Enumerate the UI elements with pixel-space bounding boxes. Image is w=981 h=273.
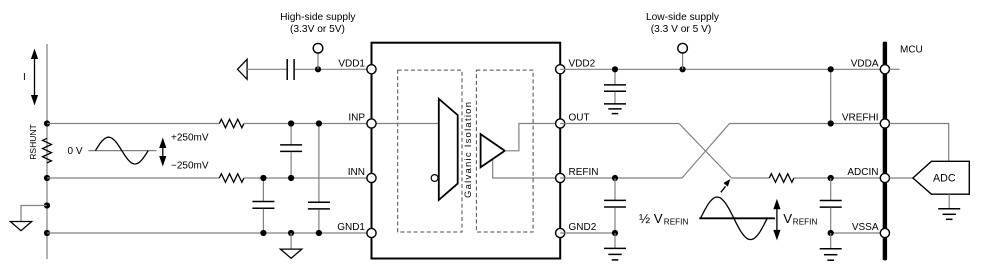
pin OUT — [556, 119, 565, 128]
wire: INN row left — [47, 177, 219, 179]
low-side supply terminal circle — [678, 43, 688, 53]
wire: OUT row — [560, 123, 679, 125]
wire: GND2 ground stem — [614, 233, 616, 248]
capacitor REFIN — [604, 178, 626, 233]
wire: cap to VDD1 pin — [295, 68, 372, 70]
node: VDDA link top — [828, 66, 834, 72]
resistor ADCIN series — [769, 174, 794, 183]
pin VREFHI — [880, 119, 889, 128]
svg-text:High-side supply: High-side supply — [280, 12, 356, 23]
svg-text:Galvanic Isolation: Galvanic Isolation — [463, 102, 474, 198]
MCU bus bar — [883, 42, 887, 261]
node: rail-INN junction — [44, 175, 50, 181]
svg-text:V: V — [783, 211, 792, 226]
double arrow VREFIN span — [773, 199, 780, 241]
wire: supply stem — [682, 53, 684, 69]
IC body — [372, 43, 561, 259]
wire: VREFHI row — [730, 123, 881, 125]
svg-text:RSHUNT: RSHUNT — [28, 124, 38, 159]
annotation arrow to crossover corner — [721, 179, 731, 192]
wire: VSSA row — [831, 232, 881, 234]
ADC block — [913, 161, 969, 194]
svg-text:(3.3V or 5V): (3.3V or 5V) — [290, 24, 345, 35]
svg-text:ADCIN: ADCIN — [847, 167, 878, 178]
ground (high-side triangle) below GND1 — [280, 249, 301, 258]
wire: INP row left — [47, 123, 219, 125]
wire: INP into modulator — [372, 123, 439, 125]
resistor INN series — [219, 174, 244, 183]
wire: buffer output to OUT pin — [505, 124, 560, 151]
high-side supply connector triangle — [238, 59, 248, 79]
high-side supply terminal circle — [313, 43, 323, 53]
node: low-side supply junction — [680, 66, 686, 72]
node: rail ground tap junction — [44, 202, 50, 208]
wire: INN row right — [244, 177, 434, 179]
wire: VDD2 row to VDDA — [560, 68, 880, 70]
wire: REFIN to buffer — [493, 159, 561, 178]
dashed box: low-side isolation barrier — [476, 70, 533, 232]
current direction arrow I (double-headed) — [31, 49, 38, 106]
pin VSSA — [880, 228, 889, 237]
double arrow +/-250mV — [159, 138, 166, 167]
svg-text:VSSA: VSSA — [852, 222, 879, 233]
resistor INP series — [219, 119, 244, 128]
node: high-side supply junction — [315, 66, 321, 72]
svg-text:½ V: ½ V — [639, 211, 663, 226]
wire: ADCIN row right — [794, 177, 881, 179]
wire: crossover diagonal REFIN->VREFHI — [682, 124, 730, 179]
node: ADCIN cap junction — [828, 175, 834, 181]
svg-text:REFIN: REFIN — [664, 218, 689, 227]
ground (bars) below GND2 — [604, 248, 626, 260]
svg-text:0 V: 0 V — [67, 146, 82, 157]
wire: VREFHI to ADC — [890, 124, 949, 162]
node: VREFHI link bottom — [828, 120, 834, 126]
svg-text:GND2: GND2 — [569, 222, 597, 233]
node: VSSA junction — [828, 230, 834, 236]
svg-text:MCU: MCU — [900, 45, 923, 56]
capacitor INP-GND1 (crosses INN) — [308, 124, 330, 234]
pin GND2 — [556, 228, 565, 237]
svg-text:ADC: ADC — [933, 172, 956, 184]
sine annotation 0V (waveform) — [95, 137, 148, 164]
pin INN — [367, 173, 376, 182]
capacitor ADCIN — [820, 178, 842, 233]
sine annotation 0V (zero line) — [88, 150, 156, 152]
wire: ADCIN to ADC — [890, 177, 913, 179]
wire: ADCIN row left — [732, 177, 770, 179]
dashed box: high-side isolation barrier — [398, 70, 462, 232]
pin GND1 — [367, 228, 376, 237]
modulator trapezoid U1 — [439, 99, 458, 200]
capacitor INN-GND1 — [252, 178, 274, 233]
wire: REFIN row — [560, 177, 682, 179]
svg-text:OUT: OUT — [569, 113, 590, 124]
pin ADCIN — [880, 173, 889, 182]
svg-text:GND1: GND1 — [337, 222, 365, 233]
wire: ADC ground stem — [948, 194, 950, 209]
wire: INP row right — [244, 123, 372, 125]
wire: left rail vertical — [46, 44, 48, 259]
svg-text:−250mV: −250mV — [171, 161, 209, 172]
buffer amp triangle — [481, 134, 505, 167]
pin VDDA — [880, 65, 889, 74]
svg-text:Low-side supply: Low-side supply — [646, 12, 720, 23]
wire: VSSA ground stem — [830, 233, 832, 249]
node: GND2 junction — [612, 230, 618, 236]
capacitor INP-INN differential — [280, 124, 302, 179]
inverting input bubble — [431, 175, 438, 182]
node: VDD2 cap junction — [612, 66, 618, 72]
resistor RSHUNT (vertical) — [43, 138, 52, 163]
svg-text:(3.3 V or 5 V): (3.3 V or 5 V) — [651, 24, 712, 35]
wire: GND1 row — [47, 232, 372, 234]
svg-text:+250mV: +250mV — [171, 133, 209, 144]
svg-text:REFIN: REFIN — [793, 218, 818, 227]
wire: supply stem — [317, 53, 319, 69]
capacitor VDD1 series (vertical plates) — [286, 59, 288, 80]
svg-text:VDDA: VDDA — [851, 58, 879, 69]
pin REFIN — [556, 173, 565, 182]
svg-text:REFIN: REFIN — [569, 167, 599, 178]
svg-text:I: I — [23, 72, 26, 83]
svg-text:VDD1: VDD1 — [338, 58, 365, 69]
ground (bars) below VDD2 cap — [604, 104, 626, 114]
sine annotation half VREFIN (waveform) — [701, 197, 768, 240]
ground (bars) below VSSA — [820, 249, 842, 261]
wire: VDDA-VREFHI link — [830, 69, 832, 123]
pin VDD1 — [367, 65, 376, 74]
ground (bars) below ADC — [938, 209, 960, 220]
svg-text:VREFHI: VREFHI — [842, 113, 879, 124]
ground (high-side triangle) at rail tap — [10, 222, 31, 231]
pin VDD2 — [556, 65, 565, 74]
node: rail-GND1 junction — [44, 230, 50, 236]
wire: high-side to cap — [247, 68, 287, 70]
svg-text:INP: INP — [348, 113, 365, 124]
wire: crossover diagonal OUT->ADCIN — [679, 124, 732, 179]
pin INP — [367, 119, 376, 128]
wire: VDDA stub — [890, 68, 900, 70]
svg-text:VDD2: VDD2 — [569, 58, 596, 69]
sine annotation half VREFIN (zero line) — [699, 217, 775, 219]
node: rail-INP junction — [44, 120, 50, 126]
svg-text:INN: INN — [348, 167, 365, 178]
node: REFIN cap junction — [612, 175, 618, 181]
wire: ground tap — [21, 206, 47, 222]
wire: GND2 row — [560, 232, 615, 234]
capacitor VDD2 bypass — [604, 69, 626, 104]
node dots input filter — [288, 120, 294, 126]
wire: GND1 ground stem — [290, 233, 292, 249]
